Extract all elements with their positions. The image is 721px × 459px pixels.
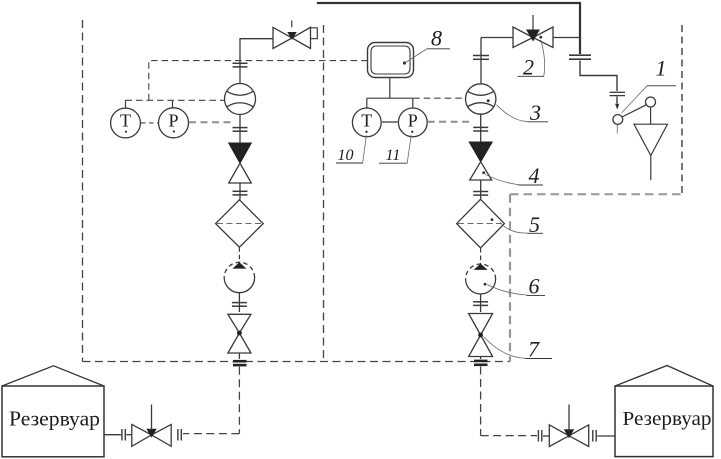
coupling 1 left ball (613, 115, 623, 125)
label 2 (518, 40, 545, 80)
hand valve top-left plug (287, 32, 297, 40)
svg-text:11: 11 (386, 147, 401, 164)
svg-text:Т: Т (120, 111, 131, 131)
flow meter 3 (466, 84, 496, 114)
wire: stub (543, 435, 549, 437)
label 7 (484, 337, 553, 362)
svg-text:Резервуар: Резервуар (9, 407, 100, 431)
svg-text:4: 4 (529, 163, 540, 188)
svg-text:8: 8 (431, 26, 442, 51)
flange above left valve (233, 128, 248, 132)
flange right of right tank valve (593, 430, 596, 442)
wire: top header line (317, 3, 580, 54)
label 6 (487, 274, 545, 299)
right tank body (615, 386, 713, 457)
valve 4 leader dot (482, 171, 485, 174)
pump 6 leader dot (484, 283, 487, 286)
label 1 (622, 55, 677, 113)
hand valve top-left outlet bracket (311, 28, 318, 39)
dashed enclosure left border (82, 20, 84, 362)
display unit 8 inner (371, 46, 410, 74)
dashed enclosure bottom border (83, 361, 511, 363)
label 3 (497, 100, 549, 125)
wire: dashed run to left tank valve (183, 433, 239, 435)
flow meter 3 leader dot (487, 99, 490, 102)
wire: valve2 inlet from right main (481, 37, 513, 39)
flange below left pump (232, 303, 247, 307)
arrow into coupling 1 (615, 104, 619, 110)
valve 2 leader dot (539, 36, 542, 39)
svg-text:Р: Р (408, 111, 418, 131)
instrument line: right T/P header solid (367, 97, 413, 99)
label 8 (406, 26, 451, 63)
valve 2 body (513, 27, 553, 48)
wire: drop to coupling (580, 61, 617, 92)
left tank roof (2, 366, 104, 386)
instrument line: corner to display (149, 61, 367, 101)
wire: left main top run (240, 39, 273, 84)
flange on drop pipe right (569, 55, 591, 59)
wire: dashed run to right tank valve (481, 435, 537, 437)
flange below pump 6 (473, 302, 488, 306)
stub to gauge P right (412, 98, 414, 108)
left tank valve plug (146, 429, 156, 438)
right tank roof (615, 366, 713, 387)
flange above coupling (610, 92, 626, 95)
wire: left tank to valve (104, 434, 121, 436)
boundary flange right line (474, 361, 488, 365)
wire: valve2 outlet to drop pipe (553, 37, 580, 39)
stub to thermometer T right (366, 98, 368, 108)
left control valve (229, 143, 252, 163)
svg-text:7: 7 (528, 337, 540, 362)
display unit 8 outer (368, 43, 414, 78)
left tank valve stem (151, 405, 153, 431)
left block valve center dot (237, 331, 242, 336)
instrument link T-P left (141, 122, 158, 124)
coupling 1 link (622, 105, 646, 117)
svg-text:Т: Т (361, 111, 372, 131)
wire: valve 7 to boundary (480, 357, 482, 360)
wire: right main riser (480, 38, 482, 85)
left tank body (2, 386, 104, 457)
flow meter left (225, 84, 256, 115)
dashed enclosure middle border (323, 25, 325, 362)
flange above valve 4 (473, 127, 488, 131)
boundary flange left line (233, 361, 247, 365)
hand valve top-left stem (291, 21, 293, 28)
instrument line: left T/P header (126, 99, 225, 101)
thermometer T right (10) (352, 108, 381, 137)
svg-text:10: 10 (338, 147, 354, 164)
filter 5 leader dot (491, 218, 494, 221)
left tank valve body (132, 424, 171, 446)
wire: dashed drop right line (480, 367, 482, 436)
svg-text:3: 3 (529, 100, 541, 125)
right tank valve body (549, 425, 588, 447)
left block valve (228, 314, 251, 353)
gauge P right (11) (398, 108, 427, 137)
label 5 (500, 212, 543, 237)
flange on left riser (233, 63, 248, 67)
instrument link T-P right (381, 121, 398, 123)
svg-text:Р: Р (168, 111, 178, 131)
svg-text:Резервуар: Резервуар (623, 408, 712, 430)
flange right of left tank valve (178, 429, 181, 441)
instrument link P-main right (gray) (428, 121, 471, 123)
instrument link P-main left (gray) (189, 121, 233, 123)
wire: left block valve to boundary (238, 353, 240, 359)
pump 6 (466, 264, 496, 294)
label 4 (485, 163, 543, 188)
wire: dashed drop left line (238, 367, 240, 434)
label 10 (336, 135, 366, 164)
svg-text:1: 1 (656, 55, 667, 80)
pump 6 arrow (474, 264, 488, 270)
filter 5 diamond (457, 199, 505, 248)
dashed enclosure right border (681, 25, 683, 194)
wire: valve 4 to filter 5 (480, 181, 482, 200)
thermometer T left (111, 108, 141, 138)
gauge P left (159, 108, 189, 138)
wire: coupling to funnel (650, 107, 652, 124)
wire: filter 5 to pump 6 (480, 248, 482, 264)
left filter midline (217, 223, 262, 225)
label 11 (379, 135, 411, 164)
wire: flange stub (126, 434, 131, 436)
wire: left pump to left block valve (238, 293, 240, 312)
left pump arrow (232, 262, 246, 268)
wire: pump 6 to valve 7 (480, 294, 482, 312)
instrument line: right header dashed to meter (413, 97, 465, 99)
wire: display to right T/P header (389, 78, 391, 99)
svg-text:6: 6 (529, 274, 540, 299)
svg-text:2: 2 (523, 55, 534, 80)
wire: stub into coupling (616, 97, 618, 104)
left filter diamond (216, 200, 264, 247)
funnel below coupling 1 (634, 124, 668, 155)
filter 5 midline (458, 223, 503, 225)
flange above filter 5 (473, 192, 488, 196)
wire: flow meter to left valve (239, 115, 241, 144)
valve 2 plug (526, 30, 540, 42)
coupling 1 right ball (646, 97, 656, 107)
wire: flow meter 3 to valve 4 (480, 114, 482, 142)
gray dashed boundary vertical x=510 (509, 194, 511, 361)
hand valve top-left body (273, 27, 311, 48)
valve 2 stem (532, 15, 534, 30)
valve 4 (469, 142, 492, 162)
display unit 8 leader dot (403, 61, 406, 64)
left pump (224, 262, 254, 292)
right tank valve stem (568, 405, 570, 431)
flange above left filter (233, 191, 248, 195)
wire: funnel drain (650, 156, 652, 181)
valve 7 (469, 314, 493, 357)
stub to gauge P left (172, 100, 174, 107)
flange on right riser (473, 56, 489, 60)
flange left of right tank valve (538, 430, 541, 442)
stub to thermometer T left (125, 100, 127, 108)
right tank valve plug (564, 429, 574, 438)
wire: left valve to filter (239, 183, 241, 200)
wire: valve to right tank (597, 435, 615, 437)
coupling 1 left ball stub (616, 125, 618, 134)
flange left of left tank valve (122, 429, 125, 441)
valve 7 center dot (478, 333, 483, 338)
gray dashed boundary horizontal y=193 (510, 193, 682, 195)
wire: left filter to pump (238, 247, 240, 262)
